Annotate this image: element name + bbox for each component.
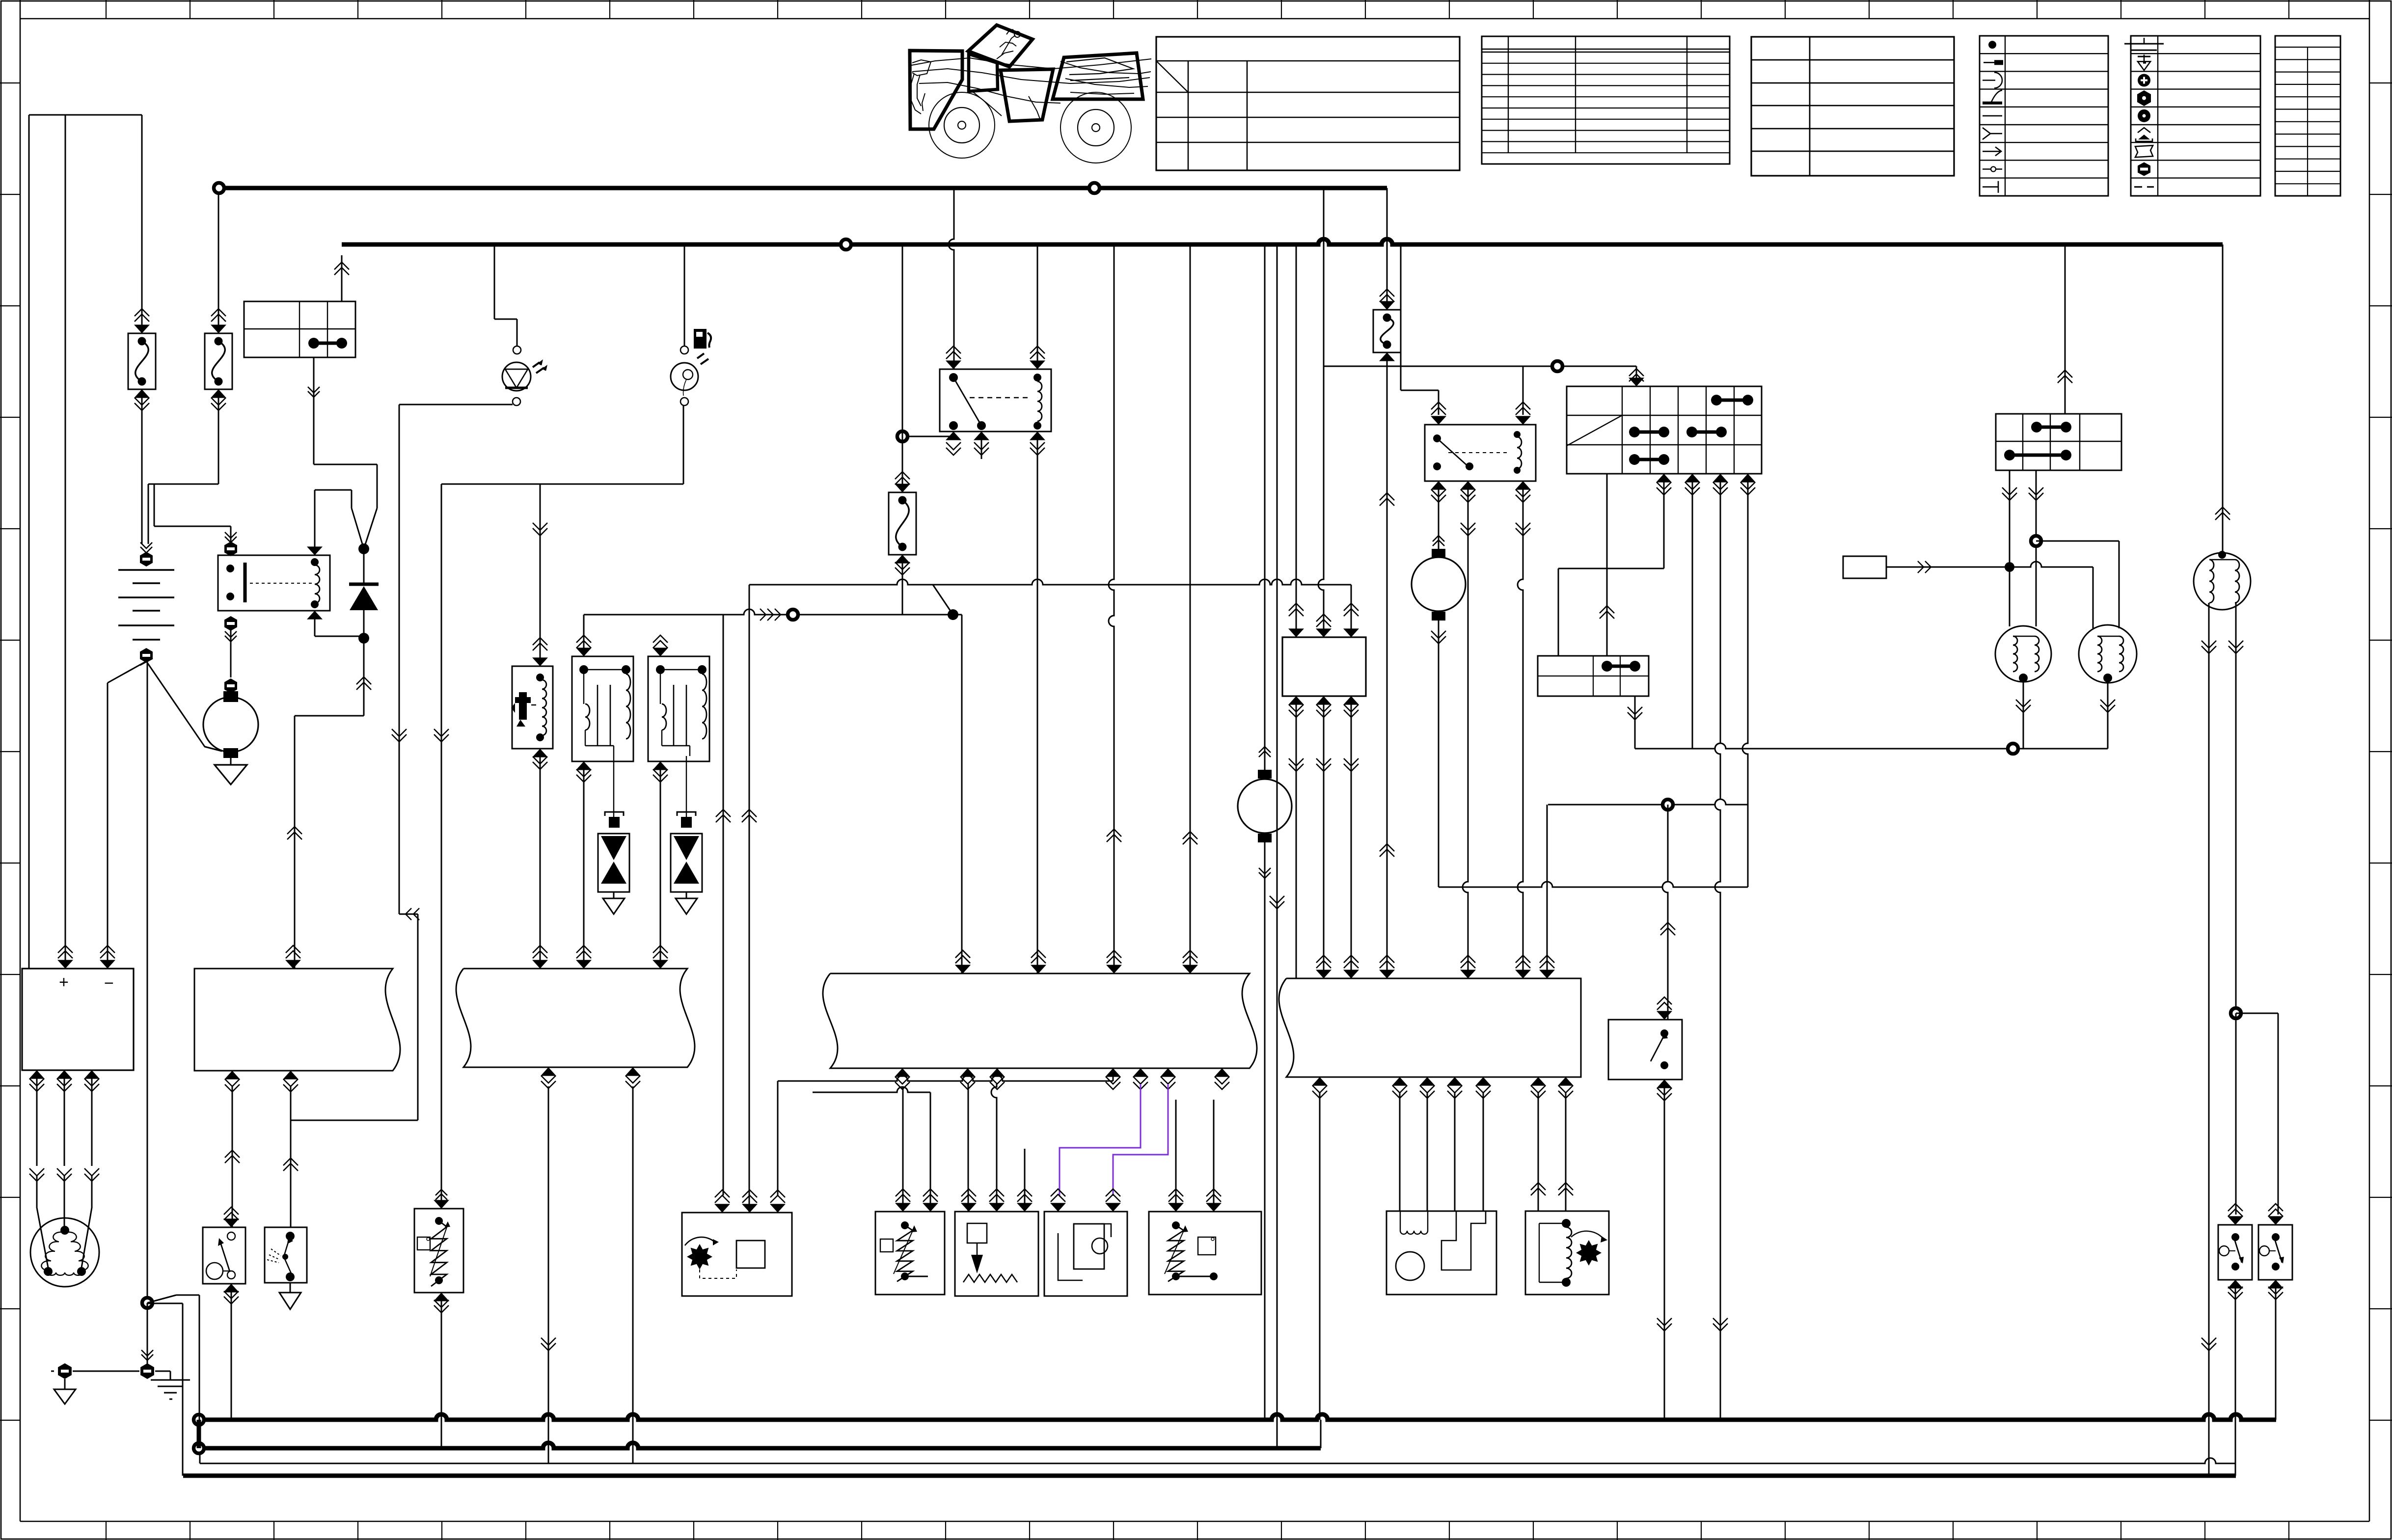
wire line end drop [1747, 805, 1749, 887]
symbol legend table 1 [1980, 36, 2108, 196]
fuse F3 accessories [889, 492, 916, 555]
ATV front wheel [929, 92, 995, 158]
relay K2 [940, 369, 1051, 432]
junction ring ground bus A [194, 1415, 204, 1425]
legend symbol: hex plug [2138, 162, 2150, 176]
kill switch SW5 [2218, 1225, 2252, 1280]
wires switches to ground buses [2235, 1280, 2236, 1476]
wires J3 to A1 [778, 1076, 1113, 1081]
wire F2 loop to battery [218, 389, 219, 484]
speed sensor R2 [414, 1209, 463, 1293]
junction ring dimmer [2031, 536, 2041, 546]
headlamp LP1 [494, 244, 495, 319]
ATV panel: top cover [968, 25, 1033, 67]
wire C4 up to fuse panel [1606, 474, 1608, 656]
regulator module B1 [22, 969, 134, 1070]
svg-text:−: − [104, 974, 114, 993]
wire left drop A [28, 115, 30, 969]
generator stator G1 [30, 1218, 99, 1287]
legend symbol: open arrow [2144, 54, 2145, 61]
wire starter ground link [205, 747, 222, 751]
cooling fan motor M2 [1438, 481, 1440, 549]
ATV panel: fuel tank cover [969, 54, 998, 91]
ground bus (bottom thick) [199, 1414, 2276, 1420]
wire J2 to ground line B [632, 1086, 634, 1463]
wire T2 primary to engine connector [660, 761, 661, 969]
starter relay K1 [154, 526, 231, 527]
wire injector to engine connector [540, 749, 541, 969]
accessory feed line [1324, 366, 1636, 367]
fuse links [1711, 395, 1722, 405]
wire bus2 to F3 [902, 244, 903, 492]
ignition coil T1 [572, 656, 633, 761]
legend symbol: stop tee [1983, 181, 1998, 193]
legend symbol: plus circle [2138, 74, 2150, 87]
wire J2 to ground line A [548, 1086, 549, 1463]
fuel level sender R5 [1149, 1212, 1261, 1295]
legend symbol: terminal [1984, 62, 1996, 63]
ground bolt [58, 1363, 72, 1379]
C5 outputs [2002, 487, 2017, 500]
wire F1 to battery [141, 389, 143, 544]
junction ring bus1 mid [1089, 183, 1100, 193]
fuse panel outputs [1656, 474, 1672, 483]
ground arrow starter [215, 765, 247, 784]
legend symbol: earth ground [2144, 38, 2145, 44]
parts list table [1482, 36, 1730, 164]
ground arrow SP2 [676, 898, 697, 914]
headlight coil H1 [1995, 626, 2051, 682]
ground bus 2 [199, 1443, 1321, 1448]
fuse F2 main [218, 193, 219, 333]
wire bus2 to C5 [2065, 244, 2066, 414]
fuel pump sender G [684, 244, 685, 346]
wire headlamp return [399, 404, 513, 405]
switch line upper [1548, 799, 1748, 805]
wire line B to gear module [723, 615, 724, 1195]
junction ring bus2 [841, 240, 851, 250]
harness connector J1 [194, 969, 400, 1071]
horn H2 box [1386, 1211, 1496, 1295]
wire T1 primary to engine connector [583, 761, 585, 969]
wire step to harness [399, 914, 418, 915]
symbol legend table 2 [2131, 36, 2260, 196]
wire fan to switch line [1439, 882, 1748, 887]
spark plug gap SP2 [681, 817, 692, 828]
wire C1 to starter relay coil [313, 357, 315, 464]
junction ring switch line [1663, 800, 1673, 810]
junction ring kill circuit [2231, 1008, 2241, 1019]
light rays icon [533, 362, 544, 373]
wire SW1 up to J1 [232, 1086, 233, 1227]
wire bus1 to accessory line [1323, 188, 1325, 366]
oil pressure sender S1 [1044, 1212, 1127, 1296]
B1 pins down to generator [29, 1070, 45, 1079]
spark plug gap SP1 [609, 817, 620, 828]
frame ground bus (bottom) [183, 1474, 2236, 1478]
ignition coil T2 [648, 656, 709, 761]
violet wire V1 [1060, 1084, 1141, 1196]
bus switched 12V (second thick bus) [342, 239, 2223, 244]
wire battery minus to ECM [107, 683, 109, 969]
dimmer connector C5 [1996, 414, 2121, 470]
handlebar switch SW2 [265, 1227, 307, 1283]
harness connector J2 [456, 969, 695, 1067]
bus2 end drop to ignition coil [2222, 244, 2224, 553]
legend symbol: junction dot [1988, 41, 1996, 49]
wire bus1 to relay K2 [949, 188, 954, 369]
wire color code table [2275, 36, 2340, 196]
node wire top left U [29, 114, 142, 116]
revision table [1751, 37, 1954, 176]
wire to fuse panel [1636, 366, 1637, 386]
relay K3 [1425, 425, 1536, 481]
battery BAT [140, 542, 152, 553]
ground stud chain [142, 1298, 153, 1308]
junction ring tail lamp line [2008, 744, 2018, 754]
wire left drop B [65, 115, 66, 962]
wire SW1 down [231, 1284, 232, 1420]
wire bus2 aux branch [1277, 244, 1278, 1448]
svg-text:+: + [59, 973, 69, 992]
signal line A [749, 579, 1351, 585]
wires J4 outputs down [1319, 1093, 1321, 1420]
wire accessory line to rectifier [1318, 366, 1324, 637]
harness connector J4 (engine) [1279, 978, 1581, 1077]
aux fan motor M3 [1258, 770, 1272, 779]
wires K3 to engine connector [1463, 481, 1468, 978]
signal line B [584, 609, 962, 615]
fuse F4 [1373, 310, 1401, 352]
thin ground return line [200, 1458, 2236, 1463]
starter solenoid box [1525, 1211, 1609, 1295]
resistor R1 [1843, 556, 1886, 578]
brake switch SW3 [1608, 1020, 1682, 1080]
harness connector J3 (main) [823, 973, 1257, 1068]
headlight coil H2 [2079, 625, 2137, 683]
legend symbol: crimp splice [2136, 138, 2152, 141]
legend symbol: washer [2138, 109, 2150, 122]
relay K3 feed [1522, 366, 1524, 415]
wire SW2 up to J1 [290, 1086, 292, 1227]
legend symbol: harness tape [2135, 145, 2153, 157]
wires bus2 to J3 [1109, 244, 1114, 973]
ignition coil assembly T3 [2194, 553, 2251, 610]
starter relay lower pin [224, 616, 237, 631]
ignition switch SW1 [203, 1227, 245, 1284]
wire bus1 drop to fuse F4 [1386, 188, 1388, 310]
junction ring ground bus B [194, 1443, 204, 1454]
fuse F1 [141, 115, 143, 333]
wire relay coil feed [154, 484, 155, 526]
fuel injector INJ [540, 484, 541, 661]
junction ring line B [788, 610, 798, 620]
earth ground symbol [141, 1350, 153, 1360]
wire R2 down [441, 1293, 442, 1448]
wire brake switch to ground bus [1664, 1080, 1665, 1420]
small connector C4 [1538, 656, 1649, 696]
junction ring accessory line [1552, 361, 1563, 372]
relay coil wiring [314, 490, 316, 555]
wire C4 down to lamp line [1634, 696, 1636, 749]
ATV vehicle illustration [911, 29, 1151, 121]
legend symbol: chassis contact [1983, 102, 2002, 105]
run switch SW6 [2258, 1225, 2292, 1280]
legend symbol: dashed wire [2134, 186, 2154, 188]
connector C1 small [244, 301, 355, 357]
ATV panel: side panel [1001, 69, 1053, 121]
wire bus2 left end to C1 [341, 255, 343, 301]
wire ring to brake switch [1662, 805, 1668, 1020]
junction ring fuse feed [902, 436, 953, 437]
legend symbol: connector arc [1983, 73, 2002, 88]
wire F3 to junction line [902, 555, 903, 615]
violet wire V2 [1113, 1084, 1168, 1196]
link bus4 to bus3 [1320, 1420, 1322, 1448]
throttle position sensor R3 [875, 1212, 945, 1295]
gear position module A1 [682, 1213, 792, 1296]
ignition coil outputs [2208, 603, 2210, 1476]
ATV panel: rear rack fender [1053, 53, 1143, 99]
legend symbol: wire [1983, 115, 2002, 117]
tail lamp line [1635, 743, 2108, 749]
wire T1 secondary to spark gap [613, 746, 614, 817]
legend symbol: splice Y [1983, 128, 2002, 139]
wire bus2 to relay K2 coil [1037, 244, 1038, 369]
relay K2 pins down [946, 432, 961, 440]
diode D1 [358, 543, 369, 554]
wire T2 secondary to spark gap [689, 746, 690, 756]
wire bus2 to rectifier [1296, 244, 1297, 637]
wire K2 load to ECM [1037, 432, 1038, 973]
ground arrow SP1 [603, 898, 625, 914]
fuse panel block [1567, 386, 1762, 474]
wire bus2 to aux motor [1264, 244, 1266, 770]
wire to speed sensor [441, 484, 442, 1209]
junction ring bus1 left end [214, 183, 224, 193]
wire fuel sender return [683, 405, 684, 484]
sensor feed line [441, 484, 683, 485]
rectifier REG [1282, 637, 1366, 696]
wire diode to harness J1 [363, 638, 365, 716]
ATV panel: front fender [910, 51, 962, 129]
coolant temp sender R4 [955, 1212, 1038, 1296]
starter motor M1 [224, 678, 237, 693]
legend symbol: hex nut [2137, 90, 2151, 106]
fuel pump icon [694, 329, 707, 349]
wire SW2 to ground [290, 1283, 291, 1293]
wire M3 to ground bus [1264, 842, 1266, 1420]
legend symbol: switch contact [1983, 168, 2002, 169]
battery negative junction [108, 661, 146, 683]
legend symbol: arrow [1983, 147, 2001, 156]
title block table [1156, 37, 1460, 170]
bus B+ main (top thick bus) [219, 186, 1387, 190]
ATV rear wheel [1060, 92, 1131, 163]
